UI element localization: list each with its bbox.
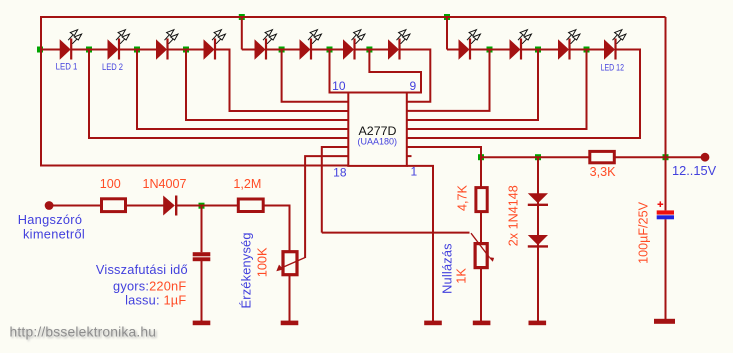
svg-text:4,7K: 4,7K xyxy=(456,184,470,211)
svg-text:9: 9 xyxy=(410,79,417,93)
svg-text:12..15V: 12..15V xyxy=(672,163,717,178)
svg-text:LED 2: LED 2 xyxy=(102,62,123,72)
svg-text:1: 1 xyxy=(411,165,418,179)
svg-text:Visszafutási idő: Visszafutási idő xyxy=(96,262,188,277)
svg-text:1,2M: 1,2M xyxy=(233,177,261,191)
svg-text:Hangszóró: Hangszóró xyxy=(18,212,83,227)
svg-text:kimenetről: kimenetről xyxy=(23,227,85,242)
svg-text:10: 10 xyxy=(332,79,346,93)
svg-text:LED 12: LED 12 xyxy=(601,63,624,73)
svg-text:gyors:220nF: gyors:220nF xyxy=(113,279,186,294)
svg-text:(UAA180): (UAA180) xyxy=(358,137,398,147)
svg-text:1K: 1K xyxy=(454,268,469,284)
svg-text:3,3K: 3,3K xyxy=(590,165,617,179)
svg-text:1N4007: 1N4007 xyxy=(142,177,186,191)
svg-text:100µF/25V: 100µF/25V xyxy=(637,201,651,263)
svg-text:18: 18 xyxy=(333,166,347,180)
svg-text:http://bsselektronika.hu: http://bsselektronika.hu xyxy=(10,325,157,340)
svg-text:100K: 100K xyxy=(255,247,270,277)
svg-text:LED 1: LED 1 xyxy=(56,61,78,71)
svg-text:Érzékenység: Érzékenység xyxy=(239,232,254,308)
svg-text:Nullázás: Nullázás xyxy=(440,243,455,294)
svg-text:100: 100 xyxy=(100,177,121,191)
svg-text:2x 1N4148: 2x 1N4148 xyxy=(507,185,521,246)
svg-text:lassu: 1µF: lassu: 1µF xyxy=(125,293,186,308)
